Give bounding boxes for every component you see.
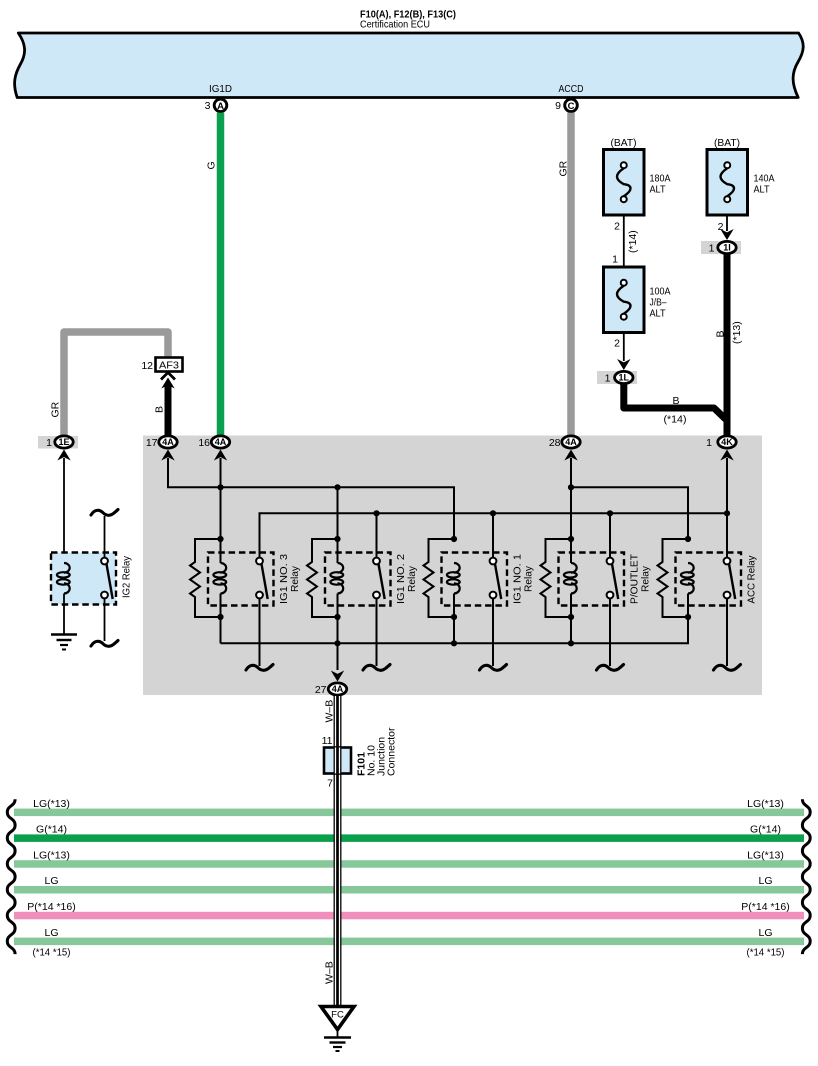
resistor of P/OUTLET Relay	[541, 539, 572, 617]
relay P/OUTLET Relay	[559, 553, 625, 606]
wire GR gray 1E to AF3	[64, 332, 168, 436]
svg-text:IG2 Relay: IG2 Relay	[121, 555, 133, 598]
svg-text:B: B	[672, 395, 679, 407]
wire switch feed x=376.5	[376, 513, 378, 557]
junction dot (454,643.3)	[451, 640, 457, 646]
svg-text:AF3: AF3	[159, 361, 179, 372]
svg-text:A: A	[217, 101, 224, 112]
wire switch feed x=493	[492, 513, 494, 557]
left brace	[7, 799, 15, 954]
wire switch output x=376.5	[376, 599, 378, 667]
svg-text:LG: LG	[44, 875, 58, 887]
contact switch of IG1 NO. 3 Relay	[262, 564, 268, 599]
ground below IG2 coil	[63, 594, 65, 635]
relay IG1 NO. 3 Relay	[208, 553, 274, 606]
svg-text:G(*14): G(*14)	[750, 824, 781, 836]
svg-text:16: 16	[198, 437, 210, 449]
wire switch output x=259.5	[259, 599, 261, 667]
relay block (gray box)	[143, 436, 762, 696]
svg-text:B: B	[715, 330, 727, 337]
bus wire P(*14 *16) row 5	[14, 912, 804, 920]
bus wire LG row 4	[14, 886, 804, 894]
break symbol x=727	[714, 665, 741, 671]
coil node dots IG1 NO. 1 Relay	[451, 536, 457, 542]
svg-text:G(*14): G(*14)	[36, 824, 67, 836]
junction dot (571,643.3)	[568, 640, 574, 646]
svg-text:(BAT): (BAT)	[611, 137, 637, 149]
svg-text:1: 1	[605, 373, 611, 385]
resistor of IG1 NO. 1 Relay	[424, 539, 455, 617]
svg-text:LG: LG	[758, 875, 772, 887]
junction dot (493,513.3)	[490, 510, 496, 516]
connector 1L pin 1	[597, 371, 637, 384]
coil of ACC Relay	[688, 563, 694, 573]
break symbol x=493	[480, 665, 507, 671]
coil of IG1 NO. 3 Relay	[221, 563, 227, 573]
svg-text:Connector: Connector	[386, 727, 398, 776]
svg-text:LG(*13): LG(*13)	[747, 849, 784, 861]
ECU F10/F12/F13 Certification ECU band	[15, 33, 804, 98]
svg-text:4A: 4A	[565, 437, 577, 447]
svg-text:FC: FC	[331, 1010, 344, 1021]
svg-text:4K: 4K	[721, 437, 733, 447]
wire B black 1I to 4K pin 1	[724, 254, 731, 436]
contact switch of ACC Relay	[729, 564, 735, 599]
svg-text:11: 11	[322, 735, 333, 747]
svg-text:W–B: W–B	[324, 700, 336, 723]
ground FC	[321, 1007, 354, 1030]
svg-text:9: 9	[555, 100, 561, 112]
wire switch output x=493	[492, 599, 494, 667]
coil of IG1 NO. 2 Relay	[338, 563, 344, 573]
junction dot (220.5,487.3)	[217, 484, 223, 490]
coil of IG2 relay	[64, 563, 70, 573]
svg-text:C: C	[568, 101, 575, 112]
coil of P/OUTLET Relay	[571, 563, 577, 573]
wire GR gray ACCD to 4A pin 28	[567, 113, 575, 436]
svg-text:GR: GR	[50, 401, 62, 417]
fuse 100A J/B-ALT	[604, 267, 645, 333]
contact switch of IG1 NO. 2 Relay	[379, 564, 385, 599]
svg-text:1: 1	[709, 243, 715, 255]
IG2 relay box	[51, 553, 116, 605]
svg-text:1: 1	[706, 437, 712, 449]
junction dot (610,513.3)	[607, 510, 613, 516]
svg-text:17: 17	[146, 437, 158, 449]
wire 100A fuse to 1L	[623, 333, 625, 362]
svg-text:1: 1	[612, 254, 618, 266]
junction dot (571,487.3)	[568, 484, 574, 490]
contact switch of P/OUTLET Relay	[612, 564, 618, 599]
connector 1I pin 1	[701, 241, 741, 254]
wire bus from 17-4A to IG1 NO.1 coil	[168, 458, 454, 539]
relay ACC Relay	[676, 553, 742, 606]
svg-text:Relay: Relay	[289, 565, 301, 592]
wire NO.2 coil branch down to 27-4A	[337, 487, 339, 563]
junction dot (337.5,487.3)	[334, 484, 340, 490]
wire B black from 1L joining 4K wire	[624, 384, 727, 421]
svg-text:LG(*13): LG(*13)	[747, 798, 784, 810]
wire 28-4A down through coil P/OUTLET to bus3	[570, 458, 572, 563]
svg-text:ALT: ALT	[650, 308, 667, 320]
wire 4K down to ACC switch	[726, 458, 728, 558]
svg-text:4A: 4A	[215, 437, 227, 447]
junction dot (727,513.3)	[724, 510, 730, 516]
svg-text:(*14): (*14)	[627, 230, 639, 253]
wire W-B from 27-4A to F101 and FC ground	[334, 696, 342, 1007]
svg-text:P(*14 *16): P(*14 *16)	[741, 901, 789, 913]
svg-text:LG: LG	[758, 927, 772, 939]
svg-text:(*13): (*13)	[731, 321, 743, 344]
break symbol x=610	[597, 665, 624, 671]
svg-text:P(*14 *16): P(*14 *16)	[27, 901, 75, 913]
wire switch feed x=610	[609, 513, 611, 557]
svg-text:ACC Relay: ACC Relay	[746, 555, 758, 604]
svg-text:GR: GR	[558, 160, 570, 176]
wire ACC coil upper	[687, 594, 689, 618]
junction dot (376.5,513.3)	[373, 510, 379, 516]
svg-text:Relay: Relay	[406, 565, 418, 592]
break symbol x=376.5	[363, 665, 390, 671]
wire switch output x=610	[609, 599, 611, 667]
svg-text:1L: 1L	[619, 373, 630, 383]
coil of IG1 NO. 1 Relay	[454, 563, 460, 573]
connector 1E pin 1	[38, 436, 78, 449]
svg-text:12: 12	[141, 360, 153, 372]
svg-text:3: 3	[205, 100, 211, 112]
resistor of IG1 NO. 2 Relay	[307, 539, 338, 617]
svg-text:IG1D: IG1D	[209, 83, 232, 95]
svg-text:4A: 4A	[332, 684, 344, 694]
svg-text:Relay: Relay	[523, 565, 535, 592]
wire B black AF3 to 4A pin 17	[161, 373, 175, 380]
svg-text:1E: 1E	[58, 437, 69, 447]
relay IG1 NO. 2 Relay	[325, 553, 391, 606]
bus wire LG row 6	[14, 938, 804, 946]
wire bus2 from 4K to all relay switches	[260, 513, 728, 557]
svg-text:28: 28	[549, 437, 561, 449]
svg-text:2: 2	[614, 338, 620, 350]
svg-text:B: B	[154, 406, 166, 413]
wire 180A fuse to 100A fuse	[623, 215, 625, 267]
svg-text:LG: LG	[44, 927, 58, 939]
wire switch output x=727	[726, 599, 728, 667]
svg-text:2: 2	[614, 221, 620, 233]
svg-text:LG(*13): LG(*13)	[33, 849, 70, 861]
wire NO.1 coil lower	[453, 594, 455, 644]
break symbol above IG2 switch	[91, 510, 118, 516]
bus wire LG(*13) row 3	[14, 860, 804, 868]
break symbol x=259.5	[246, 665, 273, 671]
svg-text:W–B: W–B	[324, 961, 336, 984]
coil node dots IG1 NO. 3 Relay	[217, 536, 223, 542]
svg-text:(*14 *15): (*14 *15)	[33, 947, 71, 959]
svg-text:ACCD: ACCD	[559, 83, 584, 95]
svg-text:(BAT): (BAT)	[714, 137, 740, 149]
svg-text:4A: 4A	[162, 437, 174, 447]
svg-text:G: G	[206, 161, 218, 169]
wire G green IG1D to 4A pin 16	[217, 113, 225, 436]
svg-text:ALT: ALT	[754, 184, 771, 196]
wire 16-4A down through coil NO.3 to bus3	[220, 458, 222, 563]
resistor of ACC Relay	[658, 539, 689, 617]
connector C pin 9 (ACCD)	[565, 99, 578, 112]
contact switch of IG1 NO. 1 Relay	[495, 564, 501, 599]
bus wire LG(*13) row 1	[14, 809, 804, 817]
coil node dots IG1 NO. 2 Relay	[334, 536, 340, 542]
svg-text:1: 1	[46, 437, 52, 449]
svg-text:1I: 1I	[723, 243, 731, 253]
wire 1E to IG2 relay coil	[63, 458, 65, 563]
svg-text:LG(*13): LG(*13)	[33, 798, 70, 810]
junction dot (337.5,643.3)	[334, 640, 340, 646]
svg-text:Relay: Relay	[640, 565, 652, 592]
wire bus3 coil grounds	[221, 617, 689, 643]
bus wire G(*14) row 2	[14, 834, 804, 842]
connector A pin 3 (IG1D)	[214, 99, 227, 112]
svg-text:ALT: ALT	[650, 184, 667, 196]
break symbol below IG2 switch	[91, 641, 118, 647]
connector 4A pin 27	[331, 671, 344, 682]
coil node dots P/OUTLET Relay	[568, 536, 574, 542]
connector AF3 pin 12	[156, 358, 183, 372]
svg-text:(*14 *15): (*14 *15)	[747, 947, 785, 959]
wire bus ACCD branch to ACC relay coil	[571, 487, 688, 539]
svg-text:7: 7	[327, 778, 333, 790]
resistor of IG1 NO. 3 Relay	[190, 539, 221, 617]
svg-text:Certification ECU: Certification ECU	[360, 19, 430, 31]
coil node dots ACC Relay	[685, 536, 691, 542]
relay IG1 NO. 1 Relay	[442, 553, 508, 606]
right brace	[802, 799, 810, 954]
svg-text:27: 27	[315, 684, 327, 696]
svg-text:(*14): (*14)	[664, 414, 687, 426]
